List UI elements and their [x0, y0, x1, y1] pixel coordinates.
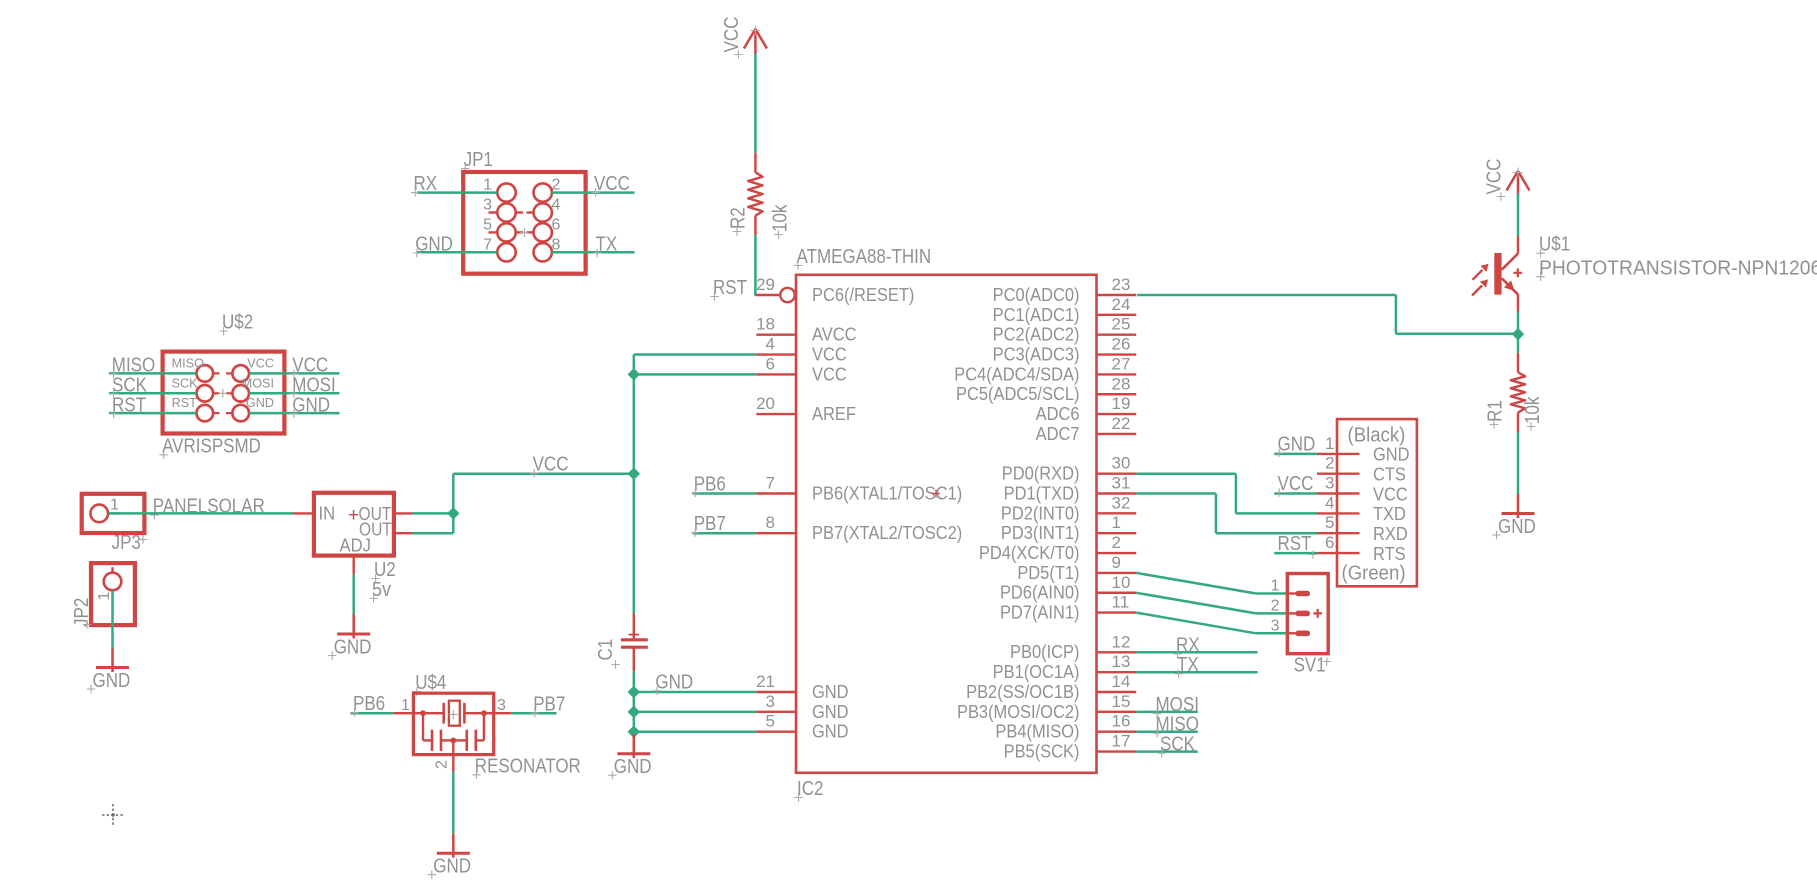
U$2 pin GND (right) — [232, 405, 249, 422]
U$2 pin RST (left) — [197, 405, 214, 422]
svg-text:31: 31 — [1112, 474, 1131, 493]
wire pin 30 RXD to serial TXD — [1136, 472, 1236, 475]
connector X1 serial outline — [1337, 419, 1417, 586]
wire net PB7 to pin 8 — [693, 532, 757, 535]
wire U2 +OUT to junction — [412, 512, 453, 515]
U$2 origin cross — [218, 389, 227, 398]
svg-text:25: 25 — [1112, 315, 1131, 334]
connector JP2 outline — [91, 563, 135, 625]
U$1 light arrow 2 — [1472, 286, 1482, 296]
U2 pin +OUT — [394, 512, 412, 514]
svg-text:U$1: U$1 — [1539, 232, 1570, 255]
wire net SCK (left) — [109, 392, 197, 395]
svg-text:PB4(MISO): PB4(MISO) — [995, 721, 1079, 742]
wire net GND to serial pin 1 — [1274, 453, 1317, 456]
svg-text:6: 6 — [552, 216, 561, 233]
svg-text:13: 13 — [1112, 652, 1131, 671]
wire U$1 emitter to node — [1517, 312, 1520, 353]
U$4 pin 1 — [393, 712, 423, 714]
IC2 right pin 11 PD7(AIN1) — [1097, 611, 1137, 613]
header JP1 outline — [463, 172, 585, 274]
power symbol VCC (net VCC, above R2) — [754, 29, 757, 54]
svg-text:4: 4 — [766, 335, 775, 354]
JP1 pin stubs (inner rows) — [489, 231, 498, 233]
svg-text:8: 8 — [552, 236, 561, 253]
svg-text:5v: 5v — [372, 579, 391, 601]
svg-text:VCC: VCC — [594, 172, 630, 195]
junction VCC trunk — [629, 469, 639, 479]
IC2 right pin 19 ADC6 — [1097, 413, 1137, 415]
U2 pin ADJ — [353, 556, 355, 575]
IC2 right pin 14 PB2(SS/OC1B) — [1097, 691, 1137, 693]
svg-text:PB0(ICP): PB0(ICP) — [1010, 641, 1079, 662]
svg-text:IC2: IC2 — [797, 777, 823, 800]
svg-text:RX: RX — [414, 172, 438, 195]
svg-text:GND: GND — [292, 393, 330, 416]
svg-text:9: 9 — [1112, 553, 1121, 572]
JP2 pin 1 — [104, 573, 122, 591]
svg-text:1: 1 — [110, 497, 119, 514]
svg-text:PB7: PB7 — [694, 512, 726, 535]
JP3 pin 1 — [90, 505, 108, 523]
IC2 right pin 26 PC3(ADC3) — [1097, 353, 1137, 355]
serial pin 1 GND — [1317, 453, 1360, 455]
svg-text:PB1(OC1A): PB1(OC1A) — [993, 661, 1080, 682]
svg-text:4: 4 — [552, 197, 561, 214]
serial pin 5 RXD — [1317, 532, 1360, 534]
wire VCC vertical trunk — [633, 355, 636, 614]
IC2 right pin 25 PC2(ADC2) — [1097, 334, 1137, 336]
IC2 left pin 29 PC6(/RESET) — [755, 294, 780, 296]
wire net PANELSOLAR — [109, 512, 294, 515]
svg-text:ADC7: ADC7 — [1036, 423, 1080, 444]
svg-text:30: 30 — [1112, 454, 1131, 473]
U$4 pin 2 — [452, 740, 454, 771]
wire net RST to serial pin 6 — [1274, 552, 1317, 555]
svg-text:18: 18 — [756, 315, 775, 334]
regulator U2 outline — [314, 493, 394, 556]
svg-text:3: 3 — [483, 197, 492, 214]
header U$2 outline — [163, 352, 285, 434]
wire GND trunk down — [633, 692, 636, 734]
wire GND pin 5 — [634, 730, 757, 733]
resistor R2 — [754, 153, 756, 173]
svg-text:R1: R1 — [1483, 400, 1506, 422]
JP1 pin 7 — [497, 243, 515, 261]
IC2 left pin 20 AREF — [756, 413, 796, 415]
svg-text:19: 19 — [1112, 394, 1131, 413]
SV1 polarity mark + — [1313, 609, 1322, 618]
JP1 pin 2 — [534, 183, 552, 201]
svg-text:AREF: AREF — [812, 403, 856, 424]
svg-text:AVCC: AVCC — [812, 324, 856, 345]
svg-text:RTS: RTS — [1373, 543, 1406, 564]
svg-text:PC1(ADC1): PC1(ADC1) — [993, 304, 1080, 325]
svg-text:U2: U2 — [374, 558, 396, 581]
svg-text:SV1: SV1 — [1294, 653, 1326, 676]
svg-text:PD5(T1): PD5(T1) — [1017, 562, 1079, 583]
wire net PB7 from U$4 pin 3 — [511, 712, 556, 715]
wire U$4 pin 2 to GND — [452, 772, 455, 834]
svg-text:1: 1 — [483, 177, 492, 194]
svg-text:VCC: VCC — [533, 452, 569, 475]
svg-text:ADJ: ADJ — [340, 535, 371, 556]
wire C1 to GND node — [633, 671, 636, 692]
IC2 right pin 28 PC5(ADC5/SCL) — [1097, 393, 1137, 395]
IC2 right pin 2 PD4(XCK/T0) — [1097, 552, 1137, 554]
svg-text:21: 21 — [756, 672, 775, 691]
junction GND row 21 — [629, 687, 639, 697]
wire VCC to pin 4 — [634, 353, 757, 356]
serial pin 6 RTS — [1317, 552, 1360, 554]
IC2 right pin 27 PC4(ADC4/SDA) — [1097, 373, 1137, 375]
IC2 right pin 31 PD1(TXD) — [1097, 492, 1137, 494]
wire net GND to JP1 pin 7 — [417, 251, 497, 254]
svg-text:JP2: JP2 — [70, 598, 93, 627]
svg-text:ADC6: ADC6 — [1036, 403, 1080, 424]
svg-text:29: 29 — [756, 275, 775, 294]
wire net MISO at pin 16 — [1136, 730, 1198, 733]
svg-text:2: 2 — [1112, 533, 1121, 552]
U$4 crystal — [423, 712, 444, 714]
U$4 origin cross — [449, 710, 458, 719]
wire net MISO (left) — [109, 372, 197, 375]
wire VCC to U$1 collector — [1517, 193, 1520, 236]
wire VCC to pin 6 — [634, 373, 757, 376]
wire net PB6 to pin 7 — [693, 492, 757, 495]
svg-text:MISO: MISO — [172, 355, 204, 370]
svg-text:GND: GND — [93, 669, 131, 692]
svg-text:RST: RST — [112, 393, 146, 416]
svg-text:JP1: JP1 — [464, 148, 493, 171]
SV1 pin 2 — [1288, 612, 1297, 614]
svg-text:22: 22 — [1112, 414, 1131, 433]
IC2 right pin 24 PC1(ADC1) — [1097, 314, 1137, 316]
svg-text:5: 5 — [483, 216, 492, 233]
wire U2 OUT loop — [412, 532, 453, 535]
svg-text:PD4(XCK/T0): PD4(XCK/T0) — [979, 542, 1080, 563]
resistor R1 — [1517, 353, 1519, 373]
svg-text:RESONATOR: RESONATOR — [475, 754, 581, 777]
wire GND pin 21 — [634, 691, 757, 694]
IC2 origin cross (red) — [932, 490, 940, 498]
U2 pin IN — [294, 512, 314, 514]
svg-text:C1: C1 — [594, 639, 617, 661]
U$2 pin MISO (left) — [197, 365, 214, 382]
JP1 pin 4 — [534, 203, 552, 221]
ground below U2 — [352, 615, 355, 639]
svg-text:TX: TX — [1177, 653, 1199, 676]
svg-text:14: 14 — [1112, 672, 1131, 691]
wire net MOSI (right) — [249, 392, 339, 395]
serial pin 2 CTS — [1317, 473, 1360, 475]
wire net VCC to serial pin 3 — [1274, 492, 1317, 495]
svg-text:3: 3 — [766, 692, 775, 711]
svg-text:1: 1 — [1112, 513, 1121, 532]
IC2 right pin 15 PB3(MOSI/OC2) — [1097, 711, 1137, 713]
svg-text:GND: GND — [1278, 432, 1316, 455]
wire pin 10 to SV1 pin 2 — [1136, 593, 1256, 614]
svg-text:+: + — [348, 505, 359, 526]
svg-text:RST: RST — [1278, 531, 1312, 554]
svg-text:3: 3 — [1271, 617, 1280, 634]
svg-text:3: 3 — [1325, 474, 1334, 493]
IC2 right pin 1 PD3(INT1) — [1097, 532, 1137, 534]
SV1 pin 1 — [1288, 592, 1297, 594]
wire net MOSI at pin 15 — [1136, 711, 1198, 714]
svg-text:GND: GND — [433, 854, 471, 877]
IC2 left pin 4 VCC — [756, 353, 796, 355]
svg-text:TXD: TXD — [1373, 503, 1406, 524]
svg-text:(Green): (Green) — [1342, 563, 1406, 585]
svg-text:RXD: RXD — [1373, 523, 1408, 544]
connector SV1 outline — [1287, 574, 1328, 654]
svg-text:1: 1 — [1271, 578, 1280, 595]
svg-text:PC6(/RESET): PC6(/RESET) — [812, 284, 914, 305]
svg-text:PD3(INT1): PD3(INT1) — [1001, 522, 1080, 543]
wire pin 9 to SV1 pin 1 — [1136, 573, 1256, 594]
IC2 right pin 12 PB0(ICP) — [1097, 651, 1137, 653]
phototransistor U$1 — [1517, 236, 1519, 253]
svg-text:GND: GND — [1373, 444, 1410, 465]
IC2 right pin 13 PB1(OC1A) — [1097, 671, 1137, 673]
svg-text:(Black): (Black) — [1348, 425, 1406, 447]
SV1 pin 3 — [1288, 632, 1297, 634]
wire pin 31 TXD to serial RXD — [1136, 492, 1216, 495]
svg-text:IN: IN — [319, 503, 336, 524]
JP1 pin 3 — [497, 203, 515, 221]
power symbol VCC (right) — [1517, 171, 1520, 196]
IC2 left pin 8 PB7(XTAL2/TOSC2) — [756, 532, 796, 534]
svg-text:VCC: VCC — [247, 355, 274, 370]
svg-text:SCK: SCK — [1160, 732, 1196, 755]
svg-text:3: 3 — [497, 697, 506, 714]
U$4 load capacitors — [422, 713, 424, 740]
wire net RX to JP1 pin 1 — [417, 191, 497, 194]
svg-text:PB6: PB6 — [353, 692, 385, 715]
ground below R1 — [1517, 494, 1520, 518]
svg-text:1: 1 — [96, 592, 113, 601]
svg-text:SCK: SCK — [172, 375, 198, 390]
resonator U$4 outline — [413, 693, 493, 754]
svg-text:26: 26 — [1112, 335, 1131, 354]
svg-text:1: 1 — [401, 697, 410, 714]
wire net RX at pin 12 — [1136, 651, 1257, 654]
serial pin 4 TXD — [1317, 512, 1360, 514]
U$4 pin 3 — [484, 712, 511, 714]
capacitor C1 — [633, 614, 635, 639]
svg-text:TX: TX — [596, 232, 618, 255]
junction GND row 5 — [629, 727, 639, 737]
svg-text:17: 17 — [1112, 732, 1131, 751]
svg-text:1: 1 — [1325, 434, 1334, 453]
svg-text:7: 7 — [483, 236, 492, 253]
svg-text:VCC: VCC — [1482, 159, 1505, 195]
svg-text:PD2(INT0): PD2(INT0) — [1001, 502, 1080, 523]
svg-text:23: 23 — [1112, 275, 1131, 294]
svg-text:12: 12 — [1112, 632, 1131, 651]
svg-text:PD6(AIN0): PD6(AIN0) — [1000, 582, 1080, 603]
cursor crosshair mark — [102, 804, 124, 826]
svg-text:7: 7 — [766, 474, 775, 493]
U2 pin OUT — [394, 532, 412, 534]
JP1 pin 6 — [534, 223, 552, 241]
svg-text:PC2(ADC2): PC2(ADC2) — [993, 324, 1080, 345]
JP1 pin 5 — [497, 223, 515, 241]
svg-text:2: 2 — [1271, 597, 1280, 614]
JP1 origin cross — [520, 228, 529, 237]
IC IC2 ATMEGA88-THIN outline — [796, 275, 1097, 773]
wire GND pin 3 — [634, 711, 757, 714]
svg-text:PB7: PB7 — [533, 692, 565, 715]
svg-text:6: 6 — [1325, 533, 1334, 552]
IC2 right pin 23 PC0(ADC0) — [1097, 294, 1137, 296]
IC2 right pin 10 PD6(AIN0) — [1097, 592, 1137, 594]
svg-text:GND: GND — [812, 681, 849, 702]
svg-text:GND: GND — [246, 395, 274, 410]
svg-text:24: 24 — [1112, 295, 1131, 314]
svg-text:27: 27 — [1112, 354, 1131, 373]
JP1 pin stubs (inner rows) — [489, 211, 498, 213]
svg-text:20: 20 — [756, 394, 775, 413]
IC2 left pin 5 GND — [756, 731, 796, 733]
IC2 left pin 21 GND — [756, 691, 796, 693]
svg-text:AVRISPSMD: AVRISPSMD — [162, 434, 261, 457]
junction U2 output — [448, 508, 458, 518]
svg-text:PB2(SS/OC1B): PB2(SS/OC1B) — [966, 681, 1079, 702]
wire U2 ADJ to GND — [352, 575, 355, 615]
svg-text:PD0(RXD): PD0(RXD) — [1002, 463, 1080, 484]
junction VCC at pin6 row — [629, 369, 639, 379]
svg-text:10k: 10k — [768, 204, 791, 232]
wire VCC horizontal from regulator — [453, 472, 634, 475]
svg-text:MOSI: MOSI — [242, 375, 274, 390]
wire net SCK at pin 17 — [1136, 750, 1198, 753]
svg-text:15: 15 — [1112, 692, 1131, 711]
U$1 light arrow 1 — [1473, 270, 1483, 280]
svg-text:U$2: U$2 — [222, 310, 253, 333]
wire pin 23 to phototransistor node — [1137, 294, 1396, 297]
svg-text:PC0(ADC0): PC0(ADC0) — [993, 284, 1080, 305]
svg-text:PD7(AIN1): PD7(AIN1) — [1000, 602, 1080, 623]
svg-text:PC4(ADC4/SDA): PC4(ADC4/SDA) — [954, 363, 1079, 384]
svg-text:GND: GND — [812, 701, 849, 722]
svg-text:GND: GND — [334, 635, 372, 658]
svg-text:4: 4 — [1325, 493, 1334, 512]
svg-text:28: 28 — [1112, 374, 1131, 393]
IC2 right pin 32 PD2(INT0) — [1097, 512, 1137, 514]
svg-text:U$4: U$4 — [415, 671, 446, 694]
JP1 pin 8 — [534, 243, 552, 261]
svg-text:6: 6 — [766, 354, 775, 373]
svg-text:10: 10 — [1112, 573, 1131, 592]
wire pin 11 to SV1 pin 3 — [1136, 613, 1256, 634]
connector JP3 outline — [82, 494, 145, 533]
junction GND row 3 — [629, 707, 639, 717]
svg-text:R2: R2 — [726, 207, 749, 229]
IC2 right pin 22 ADC7 — [1097, 433, 1137, 435]
wire net TX from JP1 pin 8 — [552, 251, 635, 254]
svg-text:PC3(ADC3): PC3(ADC3) — [993, 344, 1080, 365]
svg-text:11: 11 — [1112, 593, 1130, 612]
IC2 right pin 9 PD5(T1) — [1097, 572, 1137, 574]
svg-text:CTS: CTS — [1373, 464, 1406, 485]
ground below C1 — [633, 734, 636, 758]
svg-text:GND: GND — [655, 670, 693, 693]
wire net VCC from JP1 pin 2 — [552, 191, 635, 194]
IC2 right pin 17 PB5(SCK) — [1097, 750, 1137, 752]
svg-text:32: 32 — [1112, 493, 1131, 512]
svg-text:JP3: JP3 — [112, 531, 141, 554]
svg-text:VCC: VCC — [1278, 472, 1314, 495]
svg-text:5: 5 — [766, 712, 775, 731]
wire net PB6 to U$4 pin 1 — [350, 712, 393, 715]
svg-text:PB5(SCK): PB5(SCK) — [1004, 741, 1080, 762]
U$2 pin VCC (right) — [232, 365, 249, 382]
svg-text:GND: GND — [812, 721, 849, 742]
JP1 pin 1 — [497, 183, 515, 201]
svg-text:2: 2 — [1325, 454, 1334, 473]
wire JP2 to GND — [111, 590, 114, 648]
svg-text:RST: RST — [713, 276, 747, 299]
svg-text:GND: GND — [614, 755, 652, 778]
svg-text:VCC: VCC — [812, 344, 847, 365]
IC2 right pin 30 PD0(RXD) — [1097, 472, 1137, 474]
svg-text:PD1(TXD): PD1(TXD) — [1004, 482, 1080, 503]
svg-text:8: 8 — [766, 513, 775, 532]
wire R1 to GND — [1517, 432, 1520, 494]
junction phototransistor node — [1513, 329, 1523, 339]
ground below JP2 — [111, 648, 114, 672]
svg-text:PC5(ADC5/SCL): PC5(ADC5/SCL) — [956, 383, 1079, 404]
wire net RST (left) — [109, 412, 197, 415]
svg-text:PB3(MOSI/OC2): PB3(MOSI/OC2) — [957, 701, 1080, 722]
wire net TX at pin 13 — [1136, 671, 1257, 674]
wire VCC symbol to R2 — [754, 54, 757, 153]
svg-text:PHOTOTRANSISTOR-NPN1206: PHOTOTRANSISTOR-NPN1206 — [1539, 257, 1817, 279]
IC2 left pin 7 PB6(XTAL1/TOSC1) — [756, 492, 796, 494]
wire net GND (right) — [249, 412, 339, 415]
svg-text:VCC: VCC — [812, 363, 847, 384]
IC2 left pin 6 VCC — [756, 373, 796, 375]
wire R2 to RST node — [754, 235, 757, 296]
U$2 pin SCK (left) — [197, 385, 214, 402]
svg-text:VCC: VCC — [1373, 483, 1408, 504]
serial pin 3 VCC — [1317, 492, 1360, 494]
IC2 right pin 16 PB4(MISO) — [1097, 731, 1137, 733]
IC2 left pin 3 GND — [756, 711, 796, 713]
svg-text:GND: GND — [415, 232, 453, 255]
svg-text:16: 16 — [1112, 712, 1131, 731]
svg-text:RST: RST — [172, 395, 197, 410]
IC2 left pin 18 AVCC — [756, 334, 796, 336]
svg-text:PB6: PB6 — [694, 472, 726, 495]
svg-text:VCC: VCC — [720, 17, 743, 53]
svg-text:PB7(XTAL2/TOSC2): PB7(XTAL2/TOSC2) — [812, 522, 962, 543]
wire net VCC (right) — [249, 372, 339, 375]
svg-text:GND: GND — [1498, 515, 1536, 538]
svg-text:5: 5 — [1325, 513, 1334, 532]
svg-text:2: 2 — [552, 177, 561, 194]
svg-text:2: 2 — [434, 760, 451, 769]
svg-text:10k: 10k — [1521, 396, 1544, 424]
U$2 pin MOSI (right) — [232, 385, 249, 402]
ground below U$4 — [452, 834, 455, 858]
U$1 polarity mark + — [1513, 268, 1522, 277]
svg-text:ATMEGA88-THIN: ATMEGA88-THIN — [797, 245, 932, 268]
